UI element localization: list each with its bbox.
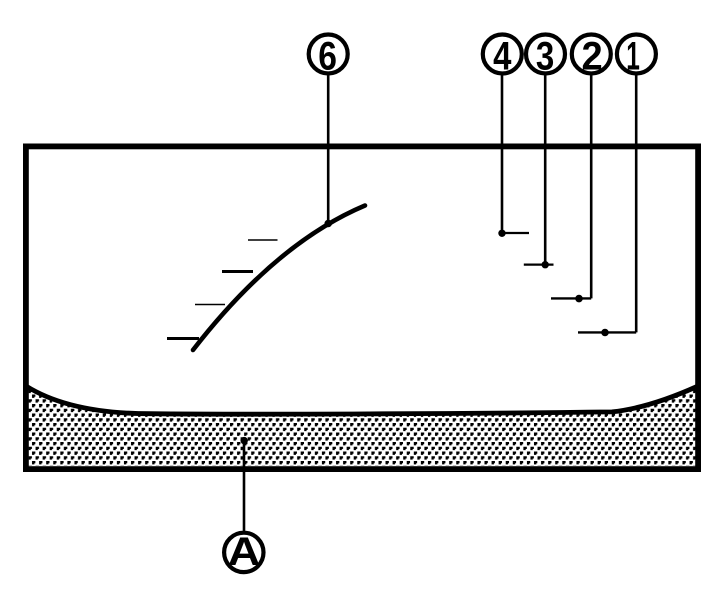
callout 3 circle [526, 35, 565, 74]
callout 1 pointer line [578, 331, 636, 333]
svg-text:A: A [228, 529, 261, 574]
callout 2 pointer line [551, 297, 591, 299]
callout 3 dot [542, 261, 549, 268]
callout 4 pointer line [502, 232, 529, 234]
callout 2 dot [575, 295, 583, 303]
svg-text:2: 2 [582, 33, 603, 78]
callout 6 circle [309, 35, 348, 74]
callout 2 leader [590, 76, 593, 299]
callout 4 leader [501, 76, 504, 233]
tank outline [26, 146, 698, 469]
callout 4 dot [498, 230, 505, 237]
callout 2 circle [572, 35, 611, 74]
callout 6 dot [324, 220, 332, 228]
fluid surface line [26, 386, 697, 414]
callout A dot [241, 437, 248, 444]
svg-text:3: 3 [536, 33, 554, 78]
callout A leader [243, 443, 246, 531]
svg-text:4: 4 [493, 33, 512, 78]
tick level 3 (thin) [195, 304, 225, 306]
svg-text:6: 6 [318, 33, 337, 78]
callout 3 leader [544, 76, 547, 264]
callout 4 circle [483, 35, 522, 74]
callout 6 leader [327, 76, 330, 223]
callout 1 leader [635, 76, 638, 333]
callout A circle [224, 533, 263, 572]
tick level 1 (top, thin) [248, 239, 278, 241]
callout 1 dot [601, 329, 609, 337]
callout 1 circle [617, 35, 656, 74]
dipstick arc [193, 206, 365, 351]
tick level 4 (bottom, thick) [167, 337, 199, 340]
fluid reservoir fill (hatched) [26, 386, 698, 466]
tick level 2 (thick) [222, 270, 253, 273]
svg-text:1: 1 [626, 33, 640, 78]
callout 3 pointer line [524, 264, 554, 266]
